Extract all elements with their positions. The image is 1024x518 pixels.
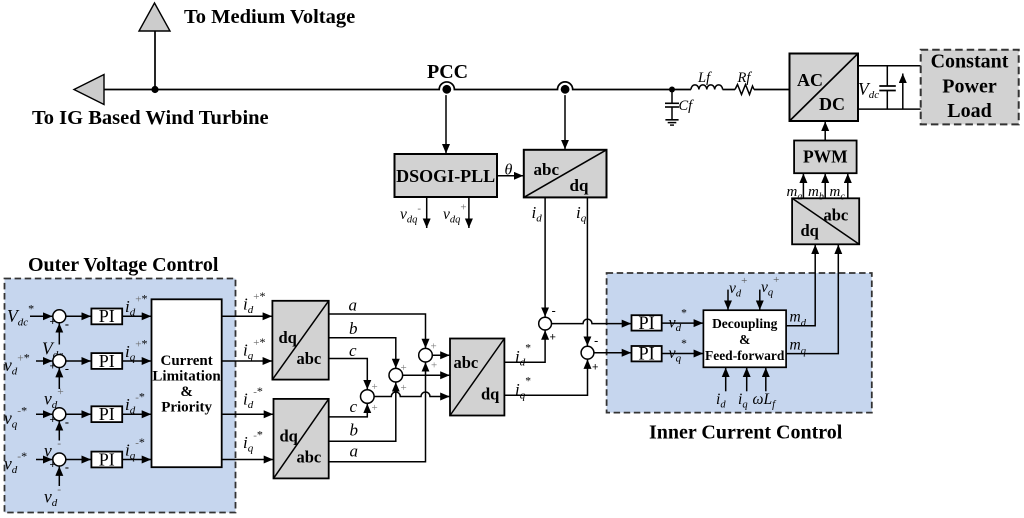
svg-text:-: - [65, 460, 69, 475]
svg-text:vdq-: vdq- [400, 203, 421, 226]
wire: vd+ feedback [58, 368, 60, 389]
wire: phase c negative [329, 404, 368, 417]
wire: summer to PI-B [66, 360, 91, 362]
summer S2 (q current) [581, 346, 594, 359]
wire: limiter out iq+* [222, 360, 272, 362]
svg-text:c: c [349, 341, 357, 360]
svg-text:dq: dq [801, 221, 820, 240]
wire: phase b negative [329, 382, 396, 441]
wire: DC bus bottom [858, 108, 921, 110]
svg-text:Vdc: Vdc [858, 79, 879, 101]
wire: PI-C to limiter [122, 413, 151, 415]
svg-text:DC: DC [819, 94, 845, 114]
svg-text:abc: abc [534, 160, 560, 179]
wire: PI-B to limiter [122, 360, 151, 362]
svg-text:-: - [594, 333, 598, 348]
svg-text:+: + [50, 459, 56, 471]
controller PI2 [632, 345, 662, 365]
block: Current Limitation & Priority [152, 299, 222, 467]
svg-text:c: c [350, 397, 358, 416]
svg-text:mb: mb [808, 184, 824, 203]
svg-text:+: + [401, 362, 407, 374]
arrow: id decoupling in [725, 368, 727, 392]
svg-text:+: + [431, 341, 437, 353]
svg-text:id: id [532, 203, 543, 225]
svg-text:+: + [431, 360, 437, 372]
svg-text:To IG Based Wind Turbine: To IG Based Wind Turbine [32, 107, 269, 129]
controller PI-B [91, 351, 122, 371]
svg-text:+: + [50, 361, 56, 373]
controller PI-A [91, 306, 122, 326]
arrow: vq+ feedforward in [759, 290, 761, 310]
wire: vd+* to summer [36, 360, 52, 362]
block: dq/abc modulation [792, 198, 859, 244]
svg-text:Power: Power [942, 76, 997, 98]
svg-text:PI: PI [638, 314, 654, 334]
block: abc/dq measurement [524, 150, 607, 198]
svg-text:iq+*: iq+* [243, 335, 265, 362]
svg-text:PI: PI [99, 449, 115, 469]
wire: vq-* to summer [36, 413, 52, 415]
arrow: mc to PWM [847, 174, 849, 199]
wire: id measurement down [544, 197, 546, 316]
svg-text:dq: dq [280, 427, 299, 446]
svg-text:PI: PI [99, 306, 115, 326]
wire: S2 to PI2 [594, 352, 631, 354]
summer C2 (phase b) [389, 368, 403, 382]
wire: limiter out iq-* [222, 459, 274, 461]
svg-text:dq: dq [279, 328, 298, 347]
svg-text:a: a [349, 296, 358, 315]
wire: PI2 to decoupling [662, 353, 703, 355]
svg-text:Load: Load [947, 100, 991, 122]
controller PI1 [632, 314, 662, 334]
wire: md to dq/abc modulation [786, 245, 815, 326]
terminal: to medium voltage (triangle) [139, 3, 170, 31]
svg-text:iq*: iq* [515, 376, 531, 402]
svg-text:id*: id* [515, 343, 531, 369]
svg-text:iq-*: iq-* [243, 428, 263, 455]
svg-text:-: - [552, 303, 556, 318]
svg-text:Constant: Constant [931, 51, 1009, 73]
arrow: vdq+ output [468, 197, 470, 228]
wire: mq to dq/abc modulation [786, 245, 838, 354]
ground [665, 120, 678, 125]
svg-text:PCC: PCC [427, 61, 468, 83]
wire: C2 output to abc/dq [403, 374, 450, 376]
wire: C1 output to abc/dq (with hops) [374, 392, 450, 397]
arrow: vdq- output [426, 197, 428, 228]
wire: PI1 to decoupling [662, 322, 703, 324]
controller PI-C [91, 404, 122, 424]
wire: S1 to PI1 (hop over iq line) [552, 319, 632, 324]
node: current measurement terminal [561, 85, 570, 94]
summer S-D [53, 453, 66, 466]
wire: phase a positive [329, 314, 426, 348]
svg-text:iq: iq [576, 203, 587, 225]
svg-text:+: + [50, 414, 56, 426]
wire: phase c positive [329, 359, 368, 390]
svg-text:PI: PI [99, 351, 115, 371]
svg-text:Cf: Cf [679, 98, 695, 114]
summer C3 (phase a) [419, 348, 433, 362]
svg-text:dq: dq [481, 385, 500, 404]
arrow: Vdc polarity [902, 74, 904, 109]
svg-text:ma: ma [787, 184, 803, 203]
terminal: to wind turbine (triangle) [74, 75, 104, 105]
svg-text:Feed-forward: Feed-forward [705, 348, 785, 363]
wire: PI-A to limiter [122, 315, 151, 317]
wire: C3 output to abc/dq [432, 354, 449, 356]
svg-text:abc: abc [297, 349, 322, 368]
svg-text:Outer Voltage Control: Outer Voltage Control [28, 254, 219, 276]
wire: phase b positive [329, 338, 396, 368]
svg-text:To Medium Voltage: To Medium Voltage [184, 6, 355, 28]
block: dq/abc negative sequence [274, 399, 329, 479]
svg-text:Inner Current Control: Inner Current Control [649, 422, 843, 444]
svg-text:Decoupling: Decoupling [712, 316, 778, 331]
wire: Vdc* to summer [30, 315, 52, 317]
wire: phase a negative [329, 362, 426, 462]
svg-text:vdq+: vdq+ [443, 202, 467, 226]
summer S1 (d current) [539, 317, 552, 330]
wire: iq measurement down [586, 197, 588, 346]
block: DSOGI-PLL [395, 154, 498, 197]
wire: summer to PI-A [66, 315, 91, 317]
block: abc/dq current reference [450, 339, 504, 416]
wire: iq* to summer [504, 359, 587, 395]
svg-text:AC: AC [797, 70, 823, 90]
svg-text:-: - [65, 317, 69, 332]
svg-text:mc: mc [830, 184, 846, 203]
svg-text:+: + [592, 362, 598, 374]
svg-text:b: b [350, 421, 359, 440]
summer S-B [53, 355, 66, 368]
summer S-C [53, 408, 66, 421]
inner current control dashed region [607, 273, 872, 413]
arrow: mb to PWM [824, 174, 826, 199]
block: dq/abc positive sequence [272, 301, 328, 380]
arrow: ma to PWM [802, 174, 804, 199]
svg-text:b: b [349, 319, 358, 338]
wire: vd-* to summer [36, 459, 52, 461]
wire: Vdc feedback [58, 323, 60, 344]
summer C1 (phase c) [361, 390, 375, 404]
resistor Rf [735, 85, 754, 95]
svg-text:Priority: Priority [161, 400, 212, 416]
wire: vd- feedback [58, 466, 60, 486]
svg-text:abc: abc [297, 448, 322, 467]
junction: Cf branch node [669, 87, 675, 93]
node: PCC terminal [442, 85, 451, 94]
load: Constant Power Load [921, 50, 1019, 125]
svg-text:PI: PI [638, 345, 654, 365]
wire: DC bus top [858, 65, 921, 67]
capacitor Cf [665, 90, 679, 120]
svg-text:-: - [65, 361, 69, 376]
svg-text:a: a [350, 442, 359, 461]
wire: summer to PI-C [66, 413, 91, 415]
converter AC/DC [790, 54, 859, 122]
arrow: PWM to converter [824, 122, 826, 141]
svg-text:id+*: id+* [243, 289, 265, 316]
svg-text:Rf: Rf [737, 70, 753, 86]
arrow: wLf decoupling in [765, 368, 767, 392]
wire: id* to summer [504, 330, 545, 362]
svg-text:PWM: PWM [803, 147, 848, 167]
wire: vq- feedback [58, 421, 60, 440]
svg-text:+: + [401, 382, 407, 394]
wire: PCC to DSOGI-PLL [445, 95, 447, 153]
svg-text:+: + [550, 332, 556, 344]
block: PWM [794, 141, 857, 174]
svg-text:PI: PI [99, 404, 115, 424]
arrow: vd+ feedforward in [727, 290, 729, 310]
controller PI-D [91, 449, 122, 469]
capacitor: DC link [879, 66, 896, 109]
outer voltage control dashed region [5, 279, 236, 513]
block: Decoupling & Feed-forward [703, 310, 786, 367]
svg-text:-: - [65, 414, 69, 429]
svg-text:&: & [739, 332, 750, 347]
wire: measurement to abc/dq [564, 95, 566, 149]
wire: theta to abc/dq [497, 175, 523, 177]
wire: main AC bus [104, 82, 790, 90]
svg-text:dq: dq [570, 176, 589, 195]
svg-text:abc: abc [454, 353, 479, 372]
wire: PI-D to limiter [122, 459, 151, 461]
svg-text:+: + [50, 316, 56, 328]
wire: limiter out id+* [222, 315, 272, 317]
svg-text:abc: abc [824, 206, 849, 225]
inductor Lf [691, 85, 723, 90]
summer S-A [53, 310, 66, 323]
svg-text:Limitation: Limitation [152, 369, 221, 385]
svg-text:DSOGI-PLL: DSOGI-PLL [396, 166, 495, 186]
wire: branch to medium voltage [154, 31, 156, 90]
svg-text:+: + [372, 381, 378, 393]
svg-text:+: + [372, 402, 378, 414]
wire: limiter out id-* [222, 413, 274, 415]
arrow: iq decoupling in [746, 368, 748, 392]
svg-text:id-*: id-* [243, 384, 263, 411]
svg-text:&: & [180, 384, 193, 400]
svg-text:Lf: Lf [697, 70, 712, 86]
svg-text:Current: Current [160, 353, 212, 369]
wire: summer to PI-D [66, 459, 91, 461]
junction: MV branch node [151, 86, 158, 93]
